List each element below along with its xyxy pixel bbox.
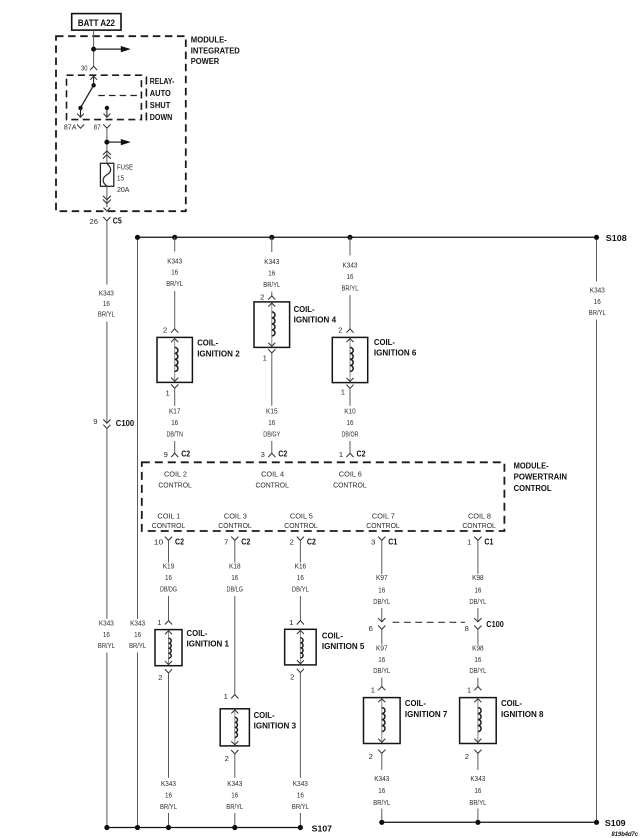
svg-text:C2: C2 (181, 449, 190, 459)
svg-text:COIL-: COIL- (254, 710, 275, 720)
svg-text:BR/YL: BR/YL (98, 310, 115, 319)
svg-text:16: 16 (378, 786, 385, 795)
svg-text:COIL 2: COIL 2 (164, 469, 187, 478)
svg-text:FUSE: FUSE (117, 163, 133, 172)
svg-text:COIL 3: COIL 3 (224, 511, 247, 520)
svg-text:16: 16 (474, 586, 481, 595)
svg-text:S108: S108 (606, 233, 627, 243)
svg-text:K343: K343 (264, 257, 279, 266)
svg-text:DB/DG: DB/DG (160, 585, 177, 594)
svg-text:819b4d7c: 819b4d7c (612, 831, 639, 838)
svg-text:S109: S109 (605, 818, 626, 828)
svg-text:IGNITION 2: IGNITION 2 (197, 349, 240, 359)
svg-text:2: 2 (158, 673, 162, 682)
svg-text:1: 1 (467, 538, 471, 547)
svg-text:K343: K343 (130, 619, 145, 628)
svg-text:1: 1 (165, 388, 169, 397)
svg-text:K343: K343 (293, 779, 308, 788)
svg-text:IGNITION 4: IGNITION 4 (294, 314, 337, 324)
svg-text:COIL-: COIL- (322, 631, 343, 641)
svg-text:2: 2 (465, 752, 469, 761)
svg-text:1: 1 (339, 450, 343, 459)
svg-text:K343: K343 (590, 286, 605, 295)
svg-text:COIL-: COIL- (294, 304, 315, 314)
svg-text:BATT A22: BATT A22 (78, 18, 115, 29)
svg-text:DB/LG: DB/LG (227, 585, 244, 594)
svg-text:2: 2 (225, 754, 229, 763)
svg-text:IGNITION 6: IGNITION 6 (374, 348, 417, 358)
svg-text:C2: C2 (175, 536, 184, 546)
svg-text:MODULE-: MODULE- (514, 461, 549, 470)
svg-text:9: 9 (93, 417, 97, 426)
svg-text:7: 7 (224, 538, 228, 547)
svg-text:C100: C100 (486, 619, 504, 629)
svg-text:C2: C2 (357, 449, 366, 459)
svg-text:BR/YL: BR/YL (166, 279, 183, 288)
svg-text:C100: C100 (116, 418, 135, 428)
svg-text:16: 16 (171, 268, 178, 277)
svg-text:K10: K10 (344, 407, 356, 416)
svg-text:DB/TN: DB/TN (166, 430, 183, 439)
svg-text:CONTROL: CONTROL (514, 484, 552, 493)
svg-text:16: 16 (231, 573, 238, 582)
svg-text:K97: K97 (376, 644, 388, 653)
svg-text:K19: K19 (163, 562, 175, 571)
svg-text:CONTROL: CONTROL (333, 481, 367, 490)
svg-text:16: 16 (347, 272, 354, 281)
svg-text:BR/YL: BR/YL (342, 283, 359, 292)
svg-text:K343: K343 (99, 619, 114, 628)
svg-text:16: 16 (171, 418, 178, 427)
svg-text:RELAY-: RELAY- (150, 77, 175, 86)
svg-text:DB/YL: DB/YL (373, 666, 390, 675)
svg-text:87A: 87A (64, 123, 77, 132)
svg-text:16: 16 (103, 630, 110, 639)
svg-text:1: 1 (224, 692, 228, 701)
svg-text:COIL 4: COIL 4 (261, 469, 284, 478)
svg-text:CONTROL: CONTROL (152, 521, 186, 530)
svg-text:CONTROL: CONTROL (158, 481, 192, 490)
svg-text:C2: C2 (278, 449, 287, 459)
svg-text:K18: K18 (229, 562, 241, 571)
svg-text:IGNITION 8: IGNITION 8 (501, 709, 544, 719)
svg-text:2: 2 (290, 672, 294, 681)
svg-text:16: 16 (297, 790, 304, 799)
svg-text:K343: K343 (227, 779, 242, 788)
svg-text:IGNITION 7: IGNITION 7 (405, 709, 448, 719)
svg-text:16: 16 (165, 573, 172, 582)
svg-text:COIL 5: COIL 5 (290, 511, 313, 520)
svg-text:20A: 20A (117, 185, 130, 194)
svg-text:DB/GY: DB/GY (263, 430, 280, 439)
svg-text:BR/YL: BR/YL (589, 308, 606, 317)
svg-text:SHUT: SHUT (150, 101, 171, 110)
svg-text:IGNITION 1: IGNITION 1 (187, 639, 230, 649)
svg-text:16: 16 (231, 790, 238, 799)
svg-text:POWER: POWER (191, 57, 220, 66)
svg-text:C1: C1 (484, 536, 493, 546)
svg-text:K15: K15 (266, 407, 278, 416)
svg-text:3: 3 (371, 538, 375, 547)
svg-text:COIL 6: COIL 6 (339, 469, 362, 478)
svg-text:30: 30 (81, 63, 88, 72)
svg-text:MODULE-: MODULE- (191, 35, 227, 44)
svg-text:1: 1 (289, 618, 293, 627)
svg-text:POWERTRAIN: POWERTRAIN (514, 473, 568, 482)
svg-text:CONTROL: CONTROL (284, 521, 318, 530)
svg-text:S107: S107 (312, 823, 333, 833)
svg-text:DB/OR: DB/OR (342, 430, 359, 439)
svg-text:DB/YL: DB/YL (292, 585, 309, 594)
svg-text:K17: K17 (169, 407, 181, 416)
svg-text:3: 3 (261, 450, 265, 459)
svg-text:C2: C2 (307, 536, 316, 546)
svg-text:1: 1 (341, 388, 345, 397)
svg-text:CONTROL: CONTROL (462, 521, 496, 530)
svg-text:K98: K98 (472, 573, 484, 582)
svg-text:15: 15 (117, 174, 124, 183)
svg-text:IGNITION 5: IGNITION 5 (322, 641, 365, 651)
svg-text:K343: K343 (161, 779, 176, 788)
svg-text:COIL-: COIL- (197, 338, 218, 348)
svg-text:BR/YL: BR/YL (373, 798, 390, 807)
svg-text:C5: C5 (113, 215, 122, 225)
svg-text:16: 16 (474, 786, 481, 795)
svg-text:BR/YL: BR/YL (292, 802, 309, 811)
svg-text:K16: K16 (295, 562, 307, 571)
svg-text:16: 16 (347, 418, 354, 427)
svg-text:COIL 1: COIL 1 (157, 511, 180, 520)
svg-text:INTEGRATED: INTEGRATED (191, 47, 240, 56)
svg-text:16: 16 (103, 299, 110, 308)
svg-text:COIL 8: COIL 8 (468, 511, 491, 520)
svg-text:1: 1 (371, 685, 375, 694)
svg-text:C1: C1 (388, 536, 397, 546)
svg-text:COIL-: COIL- (501, 698, 522, 708)
svg-text:16: 16 (165, 790, 172, 799)
svg-text:16: 16 (268, 268, 275, 277)
svg-text:9: 9 (164, 450, 168, 459)
svg-text:COIL-: COIL- (187, 628, 208, 638)
svg-text:2: 2 (338, 326, 342, 335)
svg-text:10: 10 (154, 538, 164, 547)
svg-text:K97: K97 (376, 573, 388, 582)
svg-text:16: 16 (268, 418, 275, 427)
svg-text:16: 16 (378, 655, 385, 664)
svg-text:COIL-: COIL- (374, 337, 395, 347)
svg-text:16: 16 (378, 586, 385, 595)
svg-text:16: 16 (594, 297, 601, 306)
svg-text:BR/YL: BR/YL (263, 280, 280, 289)
svg-text:1: 1 (263, 354, 267, 363)
svg-text:CONTROL: CONTROL (255, 481, 289, 490)
svg-text:K343: K343 (343, 261, 358, 270)
svg-text:IGNITION 3: IGNITION 3 (254, 721, 297, 731)
svg-text:BR/YL: BR/YL (469, 798, 486, 807)
svg-text:CONTROL: CONTROL (218, 521, 252, 530)
svg-text:87: 87 (94, 123, 101, 132)
svg-text:BR/YL: BR/YL (98, 641, 115, 650)
svg-text:16: 16 (297, 573, 304, 582)
svg-text:BR/YL: BR/YL (160, 802, 177, 811)
svg-text:K98: K98 (472, 644, 484, 653)
svg-text:K343: K343 (99, 289, 114, 298)
svg-text:CONTROL: CONTROL (366, 521, 400, 530)
svg-text:2: 2 (163, 326, 167, 335)
svg-text:DOWN: DOWN (150, 113, 173, 122)
svg-text:BR/YL: BR/YL (129, 641, 146, 650)
svg-text:COIL-: COIL- (405, 698, 426, 708)
svg-text:K343: K343 (374, 774, 389, 783)
svg-text:DB/YL: DB/YL (469, 597, 486, 606)
svg-text:K343: K343 (470, 774, 485, 783)
svg-text:DB/YL: DB/YL (469, 666, 486, 675)
svg-text:2: 2 (260, 293, 264, 302)
svg-text:2: 2 (290, 538, 294, 547)
svg-text:K343: K343 (167, 256, 182, 265)
svg-text:1: 1 (467, 685, 471, 694)
svg-text:16: 16 (474, 655, 481, 664)
svg-text:AUTO: AUTO (150, 89, 171, 98)
svg-text:C2: C2 (241, 536, 250, 546)
svg-text:1: 1 (157, 618, 161, 627)
svg-text:COIL 7: COIL 7 (372, 511, 395, 520)
svg-text:DB/YL: DB/YL (373, 597, 390, 606)
svg-text:2: 2 (369, 752, 373, 761)
svg-text:BR/YL: BR/YL (226, 802, 243, 811)
svg-text:8: 8 (465, 624, 469, 633)
svg-text:16: 16 (134, 630, 141, 639)
svg-text:6: 6 (369, 624, 373, 633)
svg-text:26: 26 (90, 217, 99, 226)
